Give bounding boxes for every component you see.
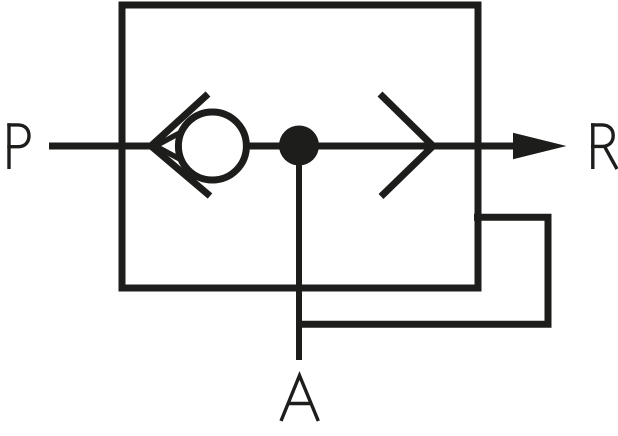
- valve body enclosure (box): [122, 5, 478, 288]
- throttle arrow (> restriction): [380, 94, 433, 197]
- check valve V1: small seat triangle: [156, 133, 181, 160]
- wire: main line from check valve to arrowhead: [248, 143, 514, 150]
- wire: pilot feedback line (box right edge to A line): [299, 217, 548, 324]
- port label P: [7, 123, 29, 169]
- check valve V1: ball (circle): [178, 112, 246, 180]
- wire: A port vertical line: [296, 146, 302, 360]
- junction node (filled dot): [279, 126, 319, 166]
- wire: P port line (left segment to check-valve seat apex): [49, 143, 158, 150]
- check valve V1: seat outer lines: [151, 94, 210, 196]
- port label A: [281, 376, 318, 422]
- flow direction arrowhead to R: [513, 133, 567, 160]
- port label R: [591, 123, 617, 169]
